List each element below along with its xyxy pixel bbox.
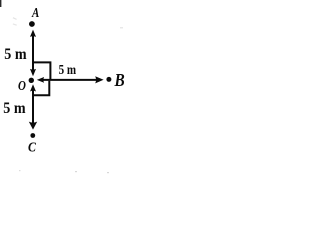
svg-text:5 m: 5 m (3, 100, 26, 117)
svg-text:A: A (31, 5, 39, 21)
svg-text:O: O (18, 78, 26, 94)
svg-text:5 m: 5 m (4, 46, 27, 63)
svg-text:C: C (28, 138, 36, 154)
svg-text:5 m: 5 m (59, 62, 77, 78)
svg-text:B: B (114, 70, 125, 90)
